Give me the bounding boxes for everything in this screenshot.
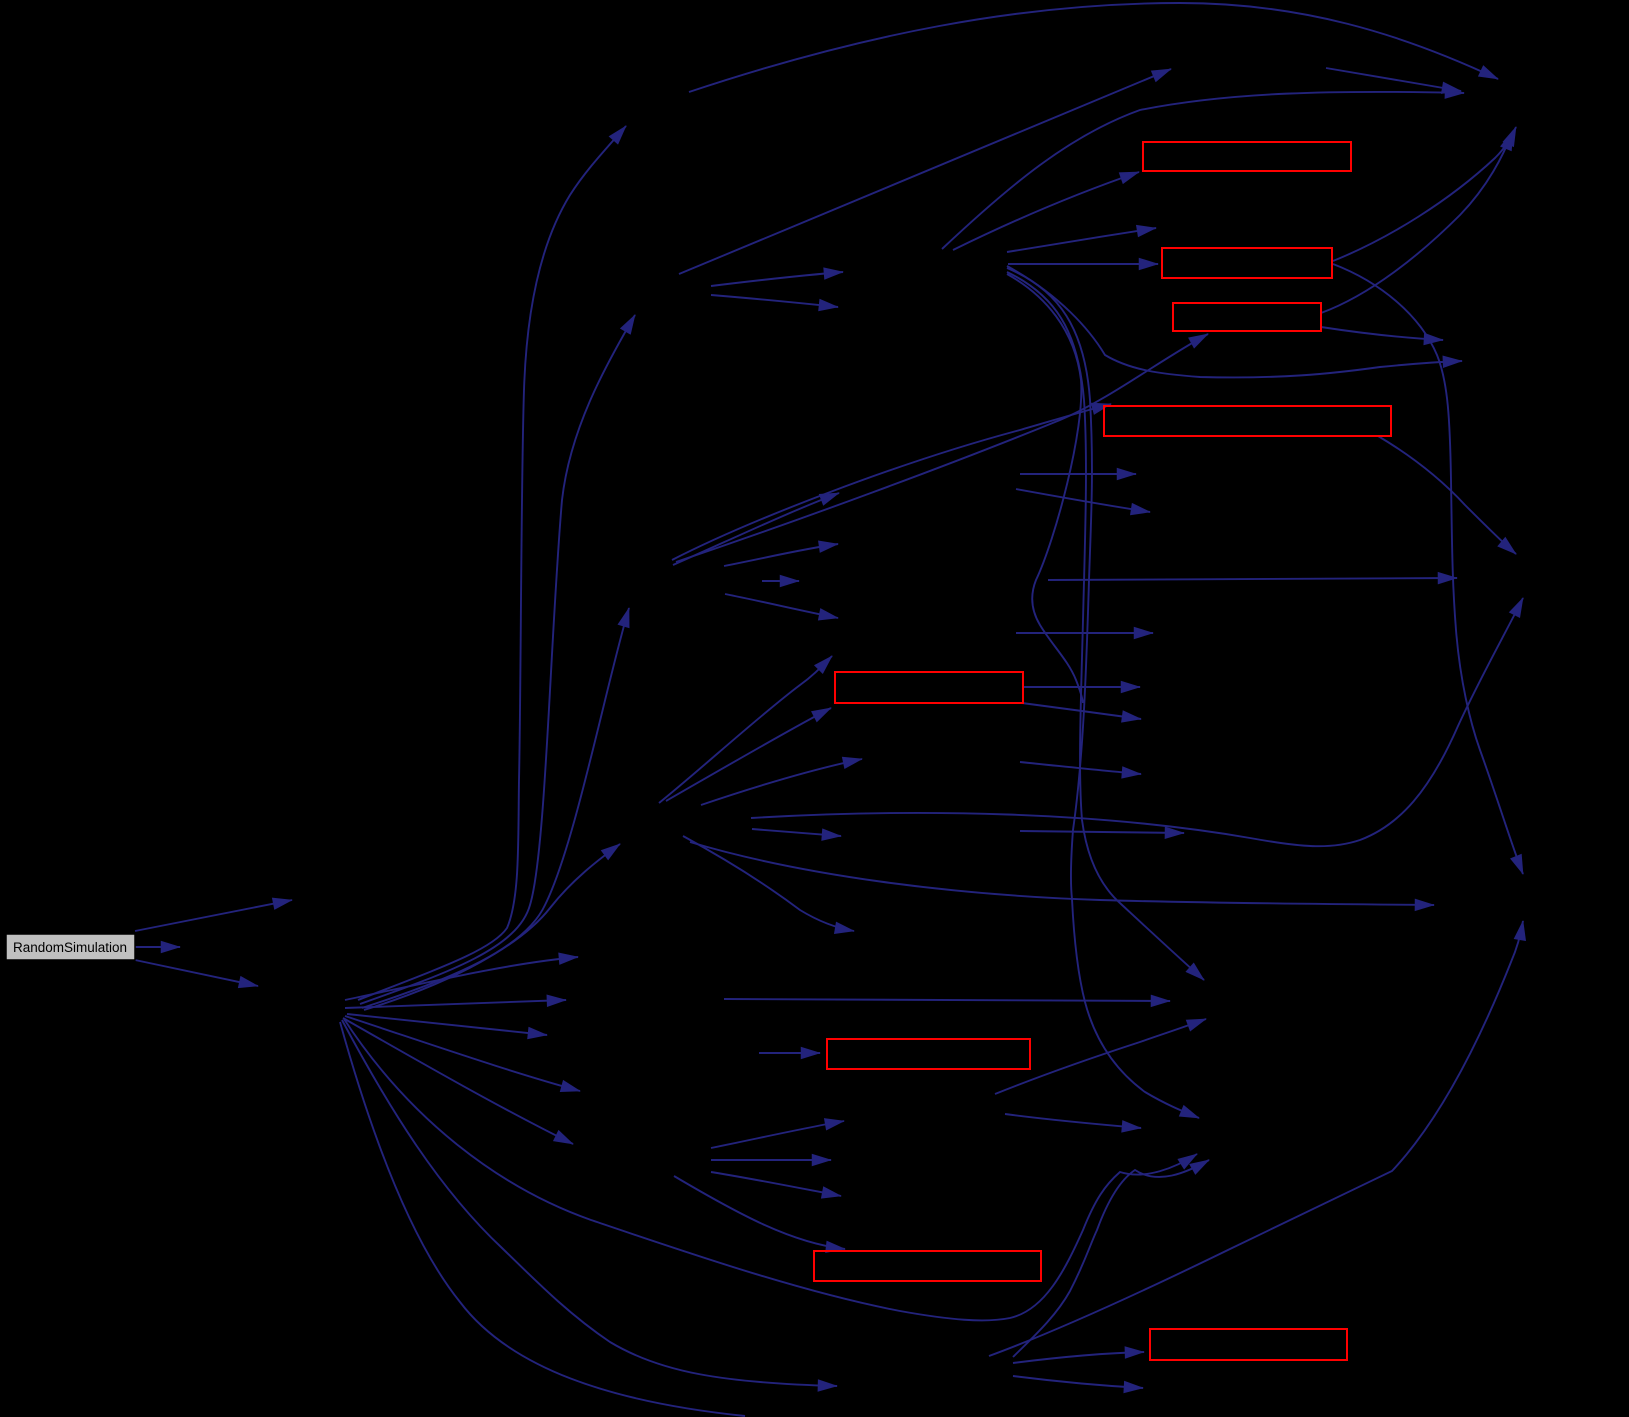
svg-text:RandomSimulation: RandomSimulation [13,940,127,955]
